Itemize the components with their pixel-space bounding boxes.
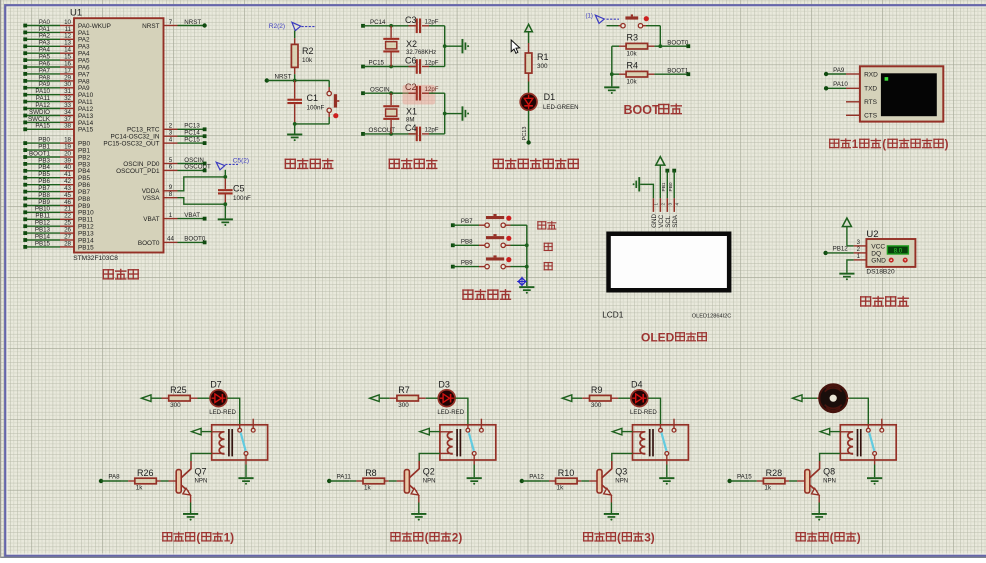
svg-text:R1: R1 xyxy=(537,52,549,62)
U1 pin 7 (NRST) to node NRST xyxy=(142,19,207,30)
node PA11 / U1 pin 32 (PA11) xyxy=(23,95,93,106)
ground under relay RL4 contact xyxy=(867,455,882,484)
OLED display LCD1 OLED12864I2C xyxy=(602,198,731,319)
node PA4 / U1 pin 14 (PA4) xyxy=(23,47,90,58)
node PA15 / U1 pin 38 (PA15) xyxy=(23,123,93,134)
svg-text:C6: C6 xyxy=(405,56,417,66)
svg-text:PB9: PB9 xyxy=(461,260,473,267)
svg-text:(: ( xyxy=(196,531,200,545)
node PA12 xyxy=(520,473,545,483)
motor (water pump) xyxy=(817,384,849,412)
node BOOT0 xyxy=(667,39,690,48)
transistor Q7 NPN xyxy=(176,461,207,503)
svg-text:): ) xyxy=(857,531,861,545)
relay RL4 body xyxy=(840,419,896,460)
node BOOT1 xyxy=(667,67,690,76)
svg-text:PC14: PC14 xyxy=(370,19,386,26)
svg-text:DS18B20: DS18B20 xyxy=(866,269,895,276)
svg-text:X1: X1 xyxy=(406,107,417,117)
svg-text:LED-GREEN: LED-GREEN xyxy=(543,104,579,111)
node PA7 / U1 pin 17 (PA7) xyxy=(23,67,90,78)
svg-text:BOOT0: BOOT0 xyxy=(184,236,206,243)
svg-text:LED-RED: LED-RED xyxy=(437,409,464,416)
node PA9 / U1 pin 30 (PA9) xyxy=(23,81,90,92)
svg-text:12pF: 12pF xyxy=(425,127,439,134)
ground under relay RL3 contact xyxy=(659,455,674,484)
pushbutton PB9 xyxy=(479,255,527,268)
svg-text:PB8: PB8 xyxy=(461,238,473,245)
svg-text:PB5: PB5 xyxy=(78,175,91,182)
power terminal left of motor xyxy=(793,395,818,402)
wire relay coil to Q3 collector xyxy=(612,453,633,461)
ground under relay RL2 contact xyxy=(467,455,482,484)
power terminal above R1 xyxy=(525,24,533,43)
svg-text:PA15: PA15 xyxy=(737,473,752,480)
U1 pin 4 (PC15-OSC32_OUT) to node PC15 xyxy=(103,136,206,147)
node PA0 / U1 pin 10 (PA0-WKUP) xyxy=(23,19,111,30)
svg-text:PA12: PA12 xyxy=(35,102,50,109)
wire D1 to node PC13 xyxy=(522,111,531,145)
svg-text:28: 28 xyxy=(64,240,71,247)
svg-text:OLED: OLED xyxy=(641,330,675,344)
svg-text:8: 8 xyxy=(169,191,173,198)
wire R2 to node NRST xyxy=(294,74,296,80)
svg-text:300: 300 xyxy=(591,402,602,409)
svg-text:12pF: 12pF xyxy=(425,86,439,93)
relay RL1 body xyxy=(212,419,268,460)
node SWCLK / U1 pin 37 (PA14) xyxy=(23,116,93,127)
svg-text:OSCOUT_PD1: OSCOUT_PD1 xyxy=(116,168,160,175)
svg-text:U2: U2 xyxy=(866,229,878,240)
svg-text:PB1: PB1 xyxy=(661,182,667,191)
resistor R4 10k xyxy=(612,61,689,86)
resistor R7 300 xyxy=(390,385,426,409)
node PB6 / U1 pin 42 (PB6) xyxy=(23,178,90,189)
svg-text:Q2: Q2 xyxy=(423,466,435,476)
svg-text:8M: 8M xyxy=(406,116,414,123)
svg-text:VCC: VCC xyxy=(871,244,885,251)
svg-text:PB5: PB5 xyxy=(38,171,50,178)
svg-text:C2: C2 xyxy=(405,82,417,92)
svg-text:RTS: RTS xyxy=(864,99,878,106)
svg-text:SDA: SDA xyxy=(672,214,679,228)
node PA9 (RXD) xyxy=(824,67,860,76)
wire relay coil to Q2 collector xyxy=(419,453,440,461)
power terminal for relay RL2 coil xyxy=(420,428,440,435)
node PA10 (TXD) xyxy=(824,81,860,90)
node PB7 xyxy=(451,218,479,227)
svg-text:PB0: PB0 xyxy=(668,182,674,191)
svg-text:PA2: PA2 xyxy=(39,33,51,40)
microcontroller U1 STM32F103C8 body xyxy=(70,7,164,261)
svg-text:PB10: PB10 xyxy=(35,206,51,213)
caption OLED display (Chinese) xyxy=(641,330,707,344)
ground under relay RL1 contact xyxy=(238,455,253,484)
pushbutton BOOT xyxy=(607,14,661,28)
caption set (Chinese) xyxy=(537,221,556,230)
svg-text:OSCOUT: OSCOUT xyxy=(184,164,211,171)
voltage probe C5(2) xyxy=(216,158,249,170)
transistor Q3 NPN xyxy=(597,461,628,503)
voltage probe R2(2) xyxy=(269,22,316,30)
LED D3 LED-RED xyxy=(426,379,465,416)
wire R1 to D1 xyxy=(528,82,530,94)
svg-text:8.0: 8.0 xyxy=(894,249,903,255)
caption relay heater 1 (Chinese) xyxy=(162,531,234,545)
capacitor C1 100nF xyxy=(287,81,324,124)
svg-text:(: ( xyxy=(425,531,429,545)
resistor R2 10k xyxy=(291,38,313,74)
node PB15 / U1 pin 28 (PB15) xyxy=(23,240,94,251)
svg-text:PB15: PB15 xyxy=(78,244,94,251)
svg-text:SCL: SCL xyxy=(665,215,672,228)
svg-text:1k: 1k xyxy=(557,484,565,491)
svg-text:VBAT: VBAT xyxy=(184,212,200,219)
resistor R1 300 xyxy=(525,43,548,82)
svg-text:38: 38 xyxy=(64,123,71,130)
node PB12 (DQ) xyxy=(823,246,853,255)
svg-text:PA7: PA7 xyxy=(39,67,51,74)
svg-text:100nF: 100nF xyxy=(307,104,325,111)
U1 pin 44 (BOOT0) to node BOOT0 xyxy=(138,236,207,247)
resistor R26 1k xyxy=(121,468,176,491)
svg-text:TXD: TXD xyxy=(864,86,877,93)
caption relay heater 2 (Chinese) xyxy=(390,531,462,545)
svg-text:300: 300 xyxy=(537,63,548,70)
caption crystal circuit (Chinese) xyxy=(389,158,438,169)
svg-text:PA15: PA15 xyxy=(35,123,50,130)
svg-text:NRST: NRST xyxy=(275,73,292,80)
U1 pin 2 (PC13_RTC) to node PC13 xyxy=(127,123,207,134)
node PB8 xyxy=(451,238,479,247)
svg-text:PA11: PA11 xyxy=(337,473,352,480)
svg-text:41: 41 xyxy=(64,171,71,178)
node PA10 / U1 pin 31 (PA10) xyxy=(23,88,93,99)
svg-text:RXD: RXD xyxy=(864,71,878,78)
svg-text:10k: 10k xyxy=(302,57,313,64)
svg-text:D1: D1 xyxy=(544,92,556,102)
svg-text:12pF: 12pF xyxy=(425,59,439,66)
resistor R25 300 xyxy=(162,385,198,409)
wire button to C1 bottom xyxy=(293,122,329,126)
svg-text:PA15: PA15 xyxy=(78,127,94,134)
node PA8 / U1 pin 29 (PA8) xyxy=(23,74,90,85)
svg-text:VSSA: VSSA xyxy=(142,195,160,202)
transistor Q8 NPN xyxy=(805,461,836,503)
svg-text:4: 4 xyxy=(169,136,173,143)
svg-text:PB7: PB7 xyxy=(461,218,473,225)
ground BOOT divider xyxy=(604,86,619,94)
svg-text:1k: 1k xyxy=(136,484,144,491)
svg-text:BOOT1: BOOT1 xyxy=(667,67,689,74)
mouse cursor xyxy=(511,40,520,53)
node SDA wire (PB0) xyxy=(668,169,676,199)
node PB9 xyxy=(451,260,479,269)
svg-text:PA2: PA2 xyxy=(78,37,90,44)
svg-text:2): 2) xyxy=(452,531,463,545)
node PB11 / U1 pin 22 (PB11) xyxy=(23,213,93,224)
svg-text:NPN: NPN xyxy=(195,477,208,484)
ground under Q3 emitter xyxy=(604,503,619,521)
svg-text:R25: R25 xyxy=(170,385,187,395)
wire D7 to relay common xyxy=(227,398,240,424)
resistor R3 10k xyxy=(612,33,689,58)
node PA3 / U1 pin 13 (PA3) xyxy=(23,40,90,51)
LED D7 LED-RED xyxy=(198,379,237,416)
svg-text:VBAT: VBAT xyxy=(143,216,159,223)
svg-text:10k: 10k xyxy=(627,79,638,86)
svg-text:NPN: NPN xyxy=(423,477,436,484)
caption temperature module (Chinese) xyxy=(860,296,909,307)
svg-text:PA12: PA12 xyxy=(78,106,94,113)
svg-text:12: 12 xyxy=(64,33,71,40)
svg-text:1k: 1k xyxy=(764,484,772,491)
svg-text:1): 1) xyxy=(224,531,235,545)
ground U2 GND xyxy=(839,260,854,280)
caption minus (Chinese) xyxy=(544,262,553,270)
svg-text:(: ( xyxy=(882,139,886,151)
svg-text:STM32F103C8: STM32F103C8 xyxy=(73,255,118,262)
svg-text:D3: D3 xyxy=(438,379,450,389)
svg-text:R28: R28 xyxy=(766,468,783,478)
U1 pin 1 (VBAT) to node VBAT xyxy=(143,212,206,223)
caption program running indicator LED (Chinese) xyxy=(493,158,579,169)
svg-text:(: ( xyxy=(617,531,621,545)
wire VSSA to C5 bottom xyxy=(178,198,226,205)
wire relay coil to Q8 collector xyxy=(820,453,841,461)
node PA15 xyxy=(727,473,752,483)
node PB4 / U1 pin 40 (PB4) xyxy=(23,164,90,175)
wire button to BOOT0 net xyxy=(659,26,661,47)
wire VDDA to C5 top xyxy=(178,177,226,191)
wire D3 to relay common xyxy=(455,398,468,424)
node PA6 / U1 pin 16 (PA6) xyxy=(23,60,90,71)
svg-text:R3: R3 xyxy=(627,33,639,43)
caption serial window 1 (simulated phone) (Chinese) xyxy=(829,138,949,151)
ground buttons bus xyxy=(519,286,534,294)
node PA11 xyxy=(327,473,351,483)
svg-text:NRST: NRST xyxy=(184,19,201,26)
capacitor C5 100nF xyxy=(218,175,251,206)
svg-text:): ) xyxy=(945,139,949,151)
power terminal left of R25 xyxy=(142,395,162,402)
power terminal for relay RL3 coil xyxy=(612,428,632,435)
svg-text:PB10: PB10 xyxy=(78,210,94,217)
pushbutton reset xyxy=(327,81,339,124)
power terminal left of R7 xyxy=(370,395,390,402)
svg-text:C5(2): C5(2) xyxy=(233,158,249,165)
terminal pin CTS xyxy=(846,114,860,116)
caption relay water pump (Chinese) xyxy=(796,531,861,545)
node PB8 / U1 pin 45 (PB8) xyxy=(23,192,90,203)
ground under Q2 emitter xyxy=(411,503,426,521)
wire probe to R2 xyxy=(294,31,296,39)
svg-text:CTS: CTS xyxy=(864,113,878,120)
node PA8 xyxy=(99,473,121,483)
svg-text:GND: GND xyxy=(651,214,658,228)
svg-text:NPN: NPN xyxy=(823,477,836,484)
svg-text:C5: C5 xyxy=(233,184,245,194)
svg-text:2: 2 xyxy=(660,203,665,206)
svg-text:PA12: PA12 xyxy=(529,473,544,480)
svg-text:D7: D7 xyxy=(210,379,222,389)
wire OLED GND pin xyxy=(640,184,653,198)
ground under Q7 emitter xyxy=(183,503,198,521)
svg-text:R10: R10 xyxy=(558,468,575,478)
power terminal for relay RL4 coil xyxy=(820,428,840,435)
wire C5 node to OSCOUT terminal xyxy=(224,170,226,177)
svg-text:12pF: 12pF xyxy=(425,19,439,26)
svg-text:R2: R2 xyxy=(302,46,314,56)
svg-text:GND: GND xyxy=(871,258,886,265)
svg-text:U1: U1 xyxy=(70,7,82,18)
svg-text:LED-RED: LED-RED xyxy=(209,409,236,416)
svg-text:BOOT0: BOOT0 xyxy=(667,39,689,46)
LED D4 LED-RED xyxy=(618,379,657,416)
svg-text:300: 300 xyxy=(398,402,409,409)
U1 pin 6 (OSCOUT_PD1) to node OSCOUT xyxy=(116,164,211,175)
svg-text:PB12: PB12 xyxy=(833,246,849,253)
svg-text:BOOT: BOOT xyxy=(624,103,660,117)
svg-text:33: 33 xyxy=(64,102,71,109)
svg-text:1: 1 xyxy=(654,203,659,206)
svg-text:3): 3) xyxy=(644,531,655,545)
svg-text:3: 3 xyxy=(667,203,672,206)
caption independent buttons (Chinese) xyxy=(462,289,511,300)
wire left bus of BOOT divider xyxy=(610,46,614,86)
svg-text:32.768KHz: 32.768KHz xyxy=(406,49,436,56)
relay RL2 body xyxy=(440,419,496,460)
ground (rotated) for crystal load caps xyxy=(361,19,416,28)
svg-text:Q7: Q7 xyxy=(195,466,207,476)
wire relay coil to Q7 collector xyxy=(191,453,212,461)
svg-text:(: ( xyxy=(830,531,834,545)
svg-text:Q8: Q8 xyxy=(823,466,835,476)
svg-text:BOOT0: BOOT0 xyxy=(138,240,160,247)
wire motor to relay common xyxy=(849,398,868,424)
svg-text:18: 18 xyxy=(64,137,71,144)
wire D4 to relay common xyxy=(648,398,661,424)
node PA5 / U1 pin 15 (PA5) xyxy=(23,54,90,65)
node PB7 / U1 pin 43 (PB7) xyxy=(23,185,90,196)
node PB12 / U1 pin 25 (PB12) xyxy=(23,220,94,231)
transistor Q2 NPN xyxy=(404,461,435,503)
U1 pin 8 (VSSA) xyxy=(142,191,177,202)
terminal pin RTS xyxy=(846,101,860,103)
svg-text:D4: D4 xyxy=(631,379,643,389)
svg-text:NPN: NPN xyxy=(615,477,628,484)
svg-text:6: 6 xyxy=(169,164,173,171)
node PB5 / U1 pin 41 (PB5) xyxy=(23,171,90,182)
node PB9 / U1 pin 46 (PB9) xyxy=(23,199,90,210)
svg-text:17: 17 xyxy=(64,67,71,74)
node PB14 / U1 pin 27 (PB14) xyxy=(23,233,94,244)
svg-text:PA7: PA7 xyxy=(78,71,90,78)
svg-text:R7: R7 xyxy=(398,385,410,395)
virtual terminal (serial window) xyxy=(860,66,943,121)
ground under Q8 emitter xyxy=(812,503,827,521)
voltage probe (1) xyxy=(586,14,620,24)
node PB13 / U1 pin 26 (PB13) xyxy=(23,227,94,238)
caption reset circuit (Chinese) xyxy=(285,158,334,169)
svg-text:LED-RED: LED-RED xyxy=(630,409,657,416)
svg-text:1k: 1k xyxy=(364,484,372,491)
svg-text:X2: X2 xyxy=(406,39,417,49)
svg-text:R26: R26 xyxy=(137,468,154,478)
caption main chip (Chinese) xyxy=(103,269,139,280)
svg-text:10k: 10k xyxy=(627,51,638,58)
svg-text:OLED12864I2C: OLED12864I2C xyxy=(692,313,732,319)
caption relay heater 3 (Chinese) xyxy=(583,531,655,545)
svg-text:100nF: 100nF xyxy=(233,195,251,202)
U1 pin 9 (VDDA) xyxy=(142,184,178,195)
svg-text:VCC: VCC xyxy=(658,214,665,228)
svg-text:1: 1 xyxy=(169,212,173,219)
resistor R28 1k xyxy=(750,468,805,491)
ground (rotated) for crystal load caps xyxy=(361,86,416,95)
power terminal for relay RL1 coil xyxy=(192,428,212,435)
pushbutton PB7 xyxy=(479,214,527,227)
svg-text:C1: C1 xyxy=(307,93,319,103)
power terminal left of R9 xyxy=(562,395,582,402)
svg-text:PB0: PB0 xyxy=(38,137,50,144)
svg-text:21: 21 xyxy=(64,206,71,213)
resistor R8 1k xyxy=(349,468,404,491)
svg-text:C3: C3 xyxy=(405,15,417,25)
svg-text:PB0: PB0 xyxy=(78,141,91,148)
svg-text:R4: R4 xyxy=(627,61,639,71)
relay RL3 body xyxy=(633,419,689,460)
node SWDIO / U1 pin 34 (PA13) xyxy=(23,109,93,120)
svg-text:(1): (1) xyxy=(586,14,593,20)
svg-text:LCD1: LCD1 xyxy=(602,310,624,320)
resistor R10 1k xyxy=(542,468,597,491)
svg-text:PC15-OSC32_OUT: PC15-OSC32_OUT xyxy=(103,141,159,148)
node PB10 / U1 pin 21 (PB10) xyxy=(23,206,94,217)
node PA2 / U1 pin 12 (PA2) xyxy=(23,33,90,44)
svg-text:PA8: PA8 xyxy=(108,473,120,480)
svg-text:OSCIN: OSCIN xyxy=(370,86,390,93)
ground for OLED GND pin (rotated) xyxy=(633,177,641,191)
svg-text:PA10: PA10 xyxy=(833,81,848,88)
svg-text:PC15: PC15 xyxy=(184,136,200,143)
origin marker (blue diamond) xyxy=(517,277,527,287)
U1 pin 3 (PC14-OSC32_IN) to node PC14 xyxy=(110,130,206,141)
svg-text:PA9: PA9 xyxy=(833,67,845,74)
node PA12 / U1 pin 33 (PA12) xyxy=(23,102,93,113)
svg-text:PC13: PC13 xyxy=(522,127,528,141)
svg-text:DQ: DQ xyxy=(871,251,881,258)
power terminal for OLED VCC xyxy=(656,157,665,199)
svg-text:R2(2): R2(2) xyxy=(269,23,285,30)
power terminal for U2 VCC xyxy=(842,218,853,246)
node PB0 / U1 pin 18 (PB0) xyxy=(23,137,90,148)
node BOOT1 / U1 pin 20 (PB2) xyxy=(23,150,90,161)
svg-text:C4: C4 xyxy=(405,123,417,133)
ground below C5 xyxy=(218,204,233,226)
LED D1 LED-GREEN xyxy=(520,92,578,111)
svg-text:7: 7 xyxy=(169,19,173,26)
svg-text:4: 4 xyxy=(674,203,679,206)
resistor R9 300 xyxy=(582,385,618,409)
svg-text:PB15: PB15 xyxy=(35,240,51,247)
wire buttons common bus xyxy=(525,225,529,286)
svg-text:R9: R9 xyxy=(591,385,603,395)
svg-text:PC15: PC15 xyxy=(369,60,385,67)
svg-text:Q3: Q3 xyxy=(615,466,627,476)
svg-text:44: 44 xyxy=(167,236,174,243)
node PB3 / U1 pin 39 (PB3) xyxy=(23,157,90,168)
